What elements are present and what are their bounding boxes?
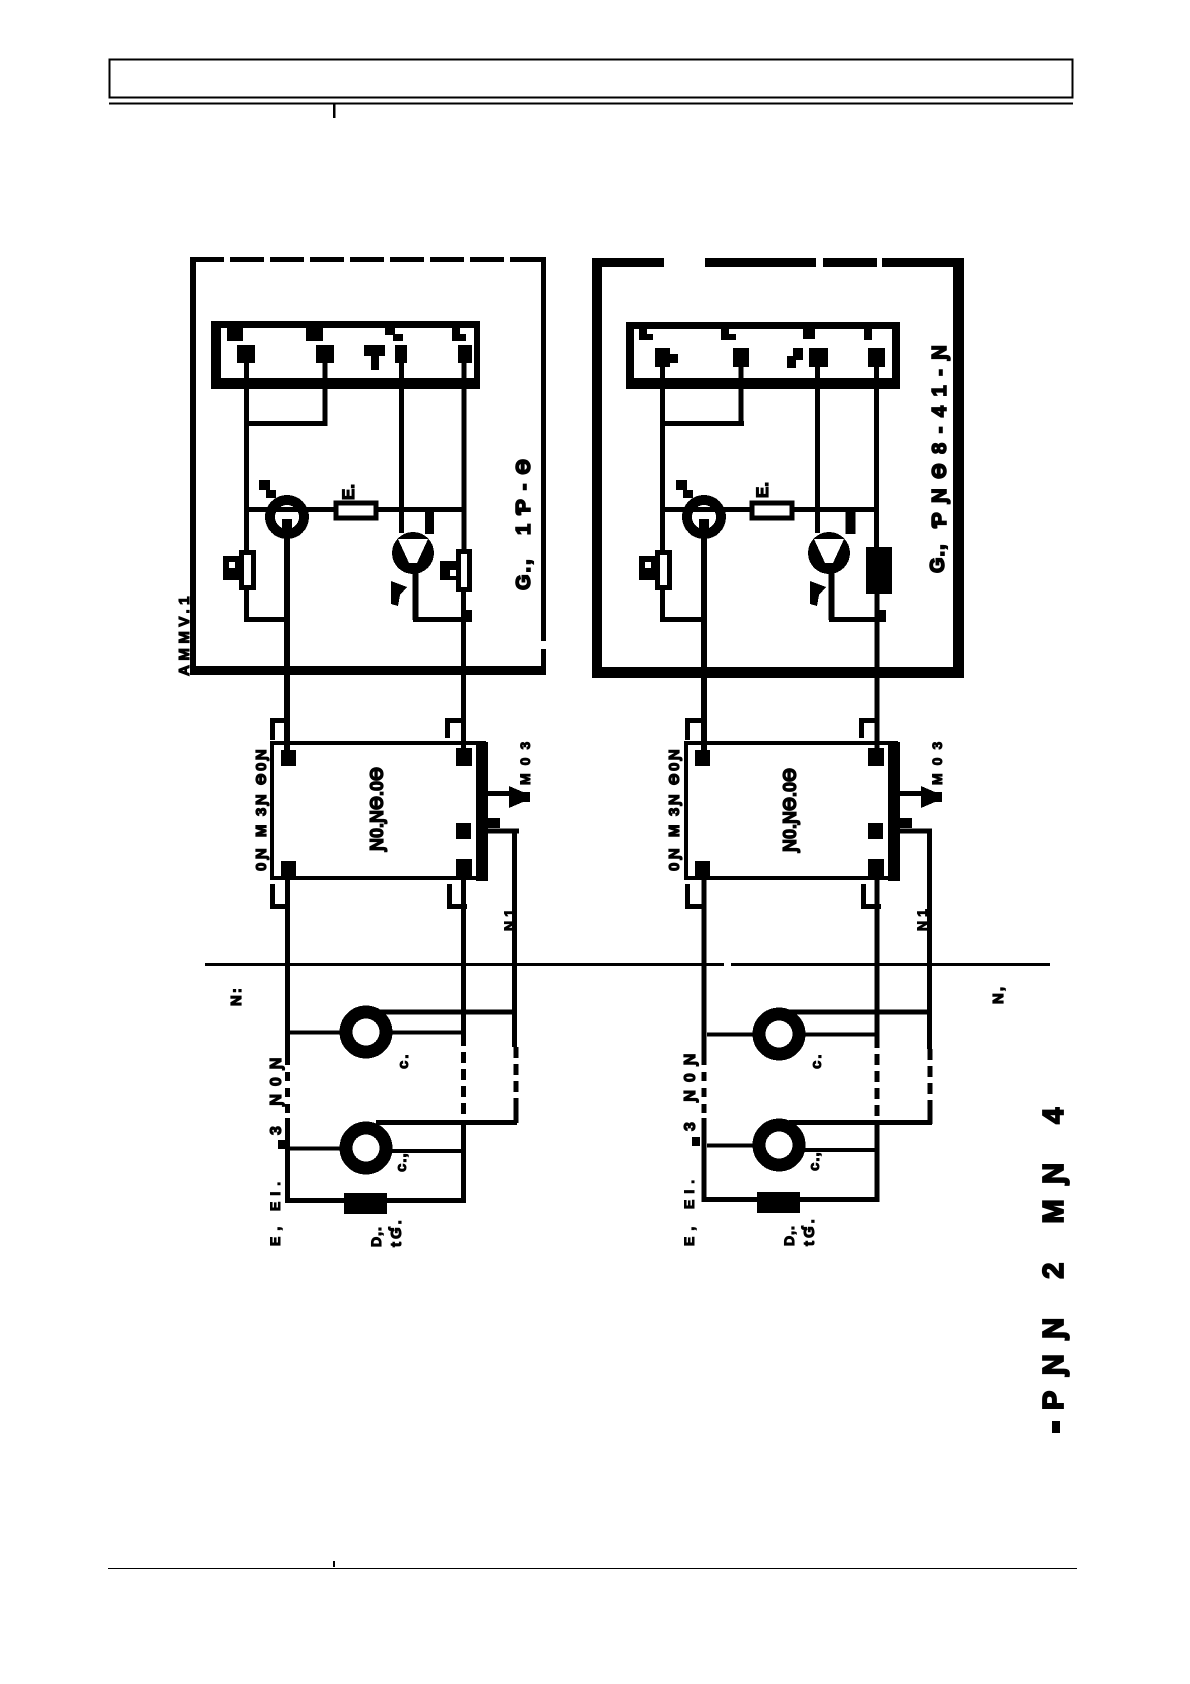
footer tick mark xyxy=(333,1561,335,1567)
thermal cutout Q2 xyxy=(808,532,850,574)
capacitor C1 body xyxy=(242,553,254,588)
svg-text:N1: N1 xyxy=(914,905,930,931)
PR2 right exit wire 2 xyxy=(900,818,912,828)
bottom bus left group xyxy=(287,1198,464,1203)
TB1 tab 3 xyxy=(385,328,403,341)
svg-text:EI.: EI. xyxy=(267,1176,283,1211)
capacitor C3 plug xyxy=(639,556,656,580)
PR2 exit connector arrow xyxy=(921,786,942,808)
fuse F2 xyxy=(757,1192,800,1213)
wire jog C1 to K1 stem xyxy=(244,617,290,622)
TB1 terminal 1 xyxy=(237,345,255,363)
wire from PR1 exit 2 down xyxy=(512,830,517,1048)
PR2 right exit wire 1 xyxy=(898,791,921,796)
TB2 terminal 5 xyxy=(868,348,885,367)
svg-text:c.,: c., xyxy=(393,1152,410,1172)
svg-text:D,.: D,. xyxy=(781,1225,797,1246)
unit U1 enclosure left border xyxy=(190,257,196,675)
wire K2 stem down to module xyxy=(701,536,707,760)
wire jog TB2.2 to TB2.1 xyxy=(660,421,744,426)
wire PR2 bottom-left down (bus L2) xyxy=(702,868,707,1056)
unit U1 enclosure top dashed border xyxy=(190,257,546,262)
wire drop into Q2 xyxy=(846,511,856,534)
svg-text:tƓ.: tƓ. xyxy=(388,1217,405,1247)
unit U2 enclosure left border xyxy=(592,258,602,678)
PR2 top-left connector hook xyxy=(688,721,705,741)
svg-text:0Ɲ M: 0Ɲ M xyxy=(253,821,270,871)
M4 left tick xyxy=(692,1137,700,1146)
thermostat K1 wiper tick xyxy=(259,480,270,490)
wire M4 top row xyxy=(789,1120,932,1125)
PR2 pin 1 pad xyxy=(695,750,710,766)
unit U2 enclosure top border xyxy=(592,258,963,267)
svg-text:1Ƥ-Ɵ: 1Ƥ-Ɵ xyxy=(513,450,535,535)
svg-text:G.,: G., xyxy=(513,557,535,590)
PR2 top-right connector hook xyxy=(862,721,879,739)
PR1 pin 2 pad xyxy=(456,748,472,766)
svg-text:c.,: c., xyxy=(806,1151,823,1171)
svg-text:c.: c. xyxy=(808,1052,825,1069)
header rule xyxy=(109,103,1073,105)
svg-text:E,: E, xyxy=(681,1221,697,1246)
module PR1 right thick border xyxy=(476,742,488,881)
unit U2 enclosure bottom border xyxy=(592,667,964,678)
motor M3 body xyxy=(759,1014,799,1054)
wire M1 top to 514 xyxy=(376,1010,517,1015)
svg-text:N:: N: xyxy=(228,986,245,1006)
wire TB2.2 down xyxy=(739,363,744,426)
terminal strip TB1 body xyxy=(211,321,480,389)
Q2 arrow xyxy=(810,581,826,606)
chassis separator line left xyxy=(205,963,724,966)
wire Q2 down xyxy=(829,570,835,620)
unit U2 enclosure right border xyxy=(953,258,964,678)
svg-text:Ɲ0.ƝƟ.0Ɵ: Ɲ0.ƝƟ.0Ɵ xyxy=(367,767,387,852)
wire M4 right xyxy=(801,1148,879,1152)
thermostat K1 center dot xyxy=(282,519,292,529)
svg-text:E.: E. xyxy=(339,484,358,500)
junction nub N1 xyxy=(461,610,472,622)
svg-text:3Ɲ Ɵ0Ɲ: 3Ɲ Ɵ0Ɲ xyxy=(253,747,270,816)
wire M2 right xyxy=(388,1149,466,1153)
capacitor C3 body xyxy=(658,553,670,588)
capacitor C2 plug xyxy=(440,561,457,580)
PR1 pin 1 pad xyxy=(281,750,296,766)
module PR2 frame xyxy=(686,743,896,878)
wire M4 left xyxy=(707,1144,760,1148)
svg-text:M03: M03 xyxy=(929,734,945,785)
chassis separator line right xyxy=(731,963,1050,966)
wire K1 stem down to module xyxy=(284,536,290,760)
TB2 terminal 3 xyxy=(787,348,803,368)
TB1 tab 2 xyxy=(306,328,323,341)
drawing number trailing dot xyxy=(1052,1421,1060,1433)
svg-text:3 Ɲ0Ɲ: 3 Ɲ0Ɲ xyxy=(682,1046,699,1131)
svg-text:ƤƝƟ8-41-Ɲ: ƤƝƟ8-41-Ɲ xyxy=(929,336,951,528)
wire M1 left xyxy=(290,1031,347,1035)
M2 left tick xyxy=(278,1140,286,1149)
motor M4 body xyxy=(759,1125,799,1165)
svg-text:N1: N1 xyxy=(501,905,517,931)
svg-text:D,.: D,. xyxy=(368,1226,384,1247)
TB2 terminal 4 xyxy=(809,348,828,367)
TB1 tab 1 xyxy=(227,328,243,341)
PR1 bottom-right connector hook xyxy=(450,884,468,907)
wire K1 row horizontal xyxy=(246,507,464,512)
wire below C1 xyxy=(244,588,249,622)
PR1 top-left connector hook xyxy=(273,721,290,741)
TB2 terminal 2 xyxy=(733,348,749,367)
wire 929 dashed xyxy=(928,1049,933,1107)
wire TB1.2 down xyxy=(323,363,328,426)
svg-text:3 Ɲ0Ɲ: 3 Ɲ0Ɲ xyxy=(268,1050,285,1135)
unit U1 enclosure right border xyxy=(541,257,546,666)
PR1 pin 3 pad xyxy=(281,861,296,876)
module PR2 right thick border xyxy=(888,742,900,881)
wire PR1 bottom-left down (bus L1) xyxy=(285,868,290,1056)
wire jog TB1.2 to TB1.1 xyxy=(244,421,327,426)
svg-text:tƓ.: tƓ. xyxy=(801,1216,818,1246)
wire Q2 jog right xyxy=(829,617,883,622)
resistor R1 xyxy=(336,503,376,518)
wire TB2.5 down xyxy=(874,363,879,550)
TB2 terminal 1 xyxy=(655,348,678,367)
wire from PR2 exit 2 down xyxy=(927,830,932,1050)
motor M2 body xyxy=(346,1128,386,1168)
wire TB1.5 down xyxy=(462,363,467,552)
wire TB1.4 down xyxy=(399,363,404,533)
Q1 arrow xyxy=(391,581,407,606)
thermostat K1 body xyxy=(270,500,304,534)
PR2 pin 3 pad xyxy=(695,861,710,876)
thermostat K2 center dot xyxy=(699,519,709,529)
TB1 terminal 5 xyxy=(458,345,472,363)
capacitor C4 body (solid) xyxy=(866,547,892,594)
thermal cutout Q1 xyxy=(392,532,434,574)
PR1 right exit wire 1 xyxy=(486,791,509,796)
wire M3 top to 929 xyxy=(789,1010,932,1015)
PR2 bottom-right connector hook xyxy=(864,884,882,907)
svg-text:G.,: G., xyxy=(927,543,949,573)
TB1 tab 4 xyxy=(452,328,466,341)
svg-text:c.: c. xyxy=(395,1052,412,1069)
svg-text:3Ɲ Ɵ0Ɲ: 3Ɲ Ɵ0Ɲ xyxy=(666,747,683,816)
PR2 pin 5 pad (exit row) xyxy=(868,823,883,839)
PR1 exit connector arrow xyxy=(509,786,530,808)
wire below C2 down to module xyxy=(461,592,466,760)
svg-text:Ɲ0.ƝƟ.0Ɵ: Ɲ0.ƝƟ.0Ɵ xyxy=(780,768,800,853)
wire M3 left xyxy=(707,1033,760,1037)
PR2 pin 2 pad xyxy=(868,748,884,766)
footer rule xyxy=(108,1568,1077,1570)
svg-text:PƝƝ 2 MƝ 4: PƝƝ 2 MƝ 4 xyxy=(1038,1092,1070,1410)
bottom bus right group xyxy=(704,1197,877,1202)
PR1 bottom-left connector hook xyxy=(273,884,291,907)
svg-text:E.: E. xyxy=(753,482,772,498)
svg-text:M03: M03 xyxy=(517,734,533,785)
TB1 terminal 2 xyxy=(316,345,334,363)
wire Q1 jog right xyxy=(413,617,467,622)
wire drop into Q1 xyxy=(425,511,434,534)
wire TB2.1 down xyxy=(660,363,665,552)
PR1 top-right connector hook xyxy=(448,721,465,739)
header title box xyxy=(110,60,1073,98)
wire TB2.4 down xyxy=(815,363,820,533)
svg-text:EI.: EI. xyxy=(681,1174,697,1209)
wire PR1 bottom-right down xyxy=(461,868,466,1046)
wire Q1 down xyxy=(413,570,419,620)
wire PR2 bottom-right down xyxy=(875,868,880,1048)
capacitor C2 body xyxy=(459,552,470,590)
wire TB1.1 down xyxy=(244,363,249,552)
TB2 tab 3 xyxy=(803,329,815,339)
PR1 right exit wire 2 xyxy=(488,818,500,828)
PR2 bottom-left connector hook xyxy=(688,884,705,907)
header tick mark xyxy=(333,104,336,118)
TB1 terminal 3 xyxy=(364,345,385,370)
svg-text:E,: E, xyxy=(267,1221,283,1246)
thermostat K2 wiper tick xyxy=(676,480,687,490)
PR1 pin 5 pad (exit row) xyxy=(456,823,471,839)
svg-text:0Ɲ M: 0Ɲ M xyxy=(666,821,683,871)
TB2 tab 1 xyxy=(639,329,653,340)
TB1 terminal 4 xyxy=(395,345,407,363)
wire below C3 xyxy=(660,588,665,622)
wire 514 dashed xyxy=(514,1047,519,1105)
motor M1 body xyxy=(346,1012,386,1052)
fuse F1 xyxy=(344,1193,387,1214)
svg-text:N,: N, xyxy=(990,985,1007,1004)
thermostat K2 body xyxy=(687,500,721,534)
capacitor C1 plug xyxy=(223,556,240,580)
unit U1 enclosure bottom border xyxy=(190,666,546,675)
wire M2 left xyxy=(290,1147,347,1151)
wire M3 right xyxy=(801,1033,879,1037)
wire below C4 down to module xyxy=(875,594,880,760)
svg-text:AMMV.1: AMMV.1 xyxy=(176,592,193,676)
terminal strip TB2 body xyxy=(626,322,900,389)
wire M2 top row xyxy=(376,1120,517,1125)
resistor R2 xyxy=(752,503,792,518)
TB2 tab 2 xyxy=(721,329,736,340)
module PR1 frame xyxy=(272,743,484,878)
wire K2 row horizontal xyxy=(663,507,877,512)
TB2 tab 4 xyxy=(864,329,872,340)
PR1 pin 4 pad xyxy=(456,859,472,877)
junction nub N2 xyxy=(875,610,886,622)
wire M1 right xyxy=(388,1031,466,1035)
PR2 pin 4 pad xyxy=(868,859,884,877)
wire jog C3 to K2 stem xyxy=(660,617,707,622)
